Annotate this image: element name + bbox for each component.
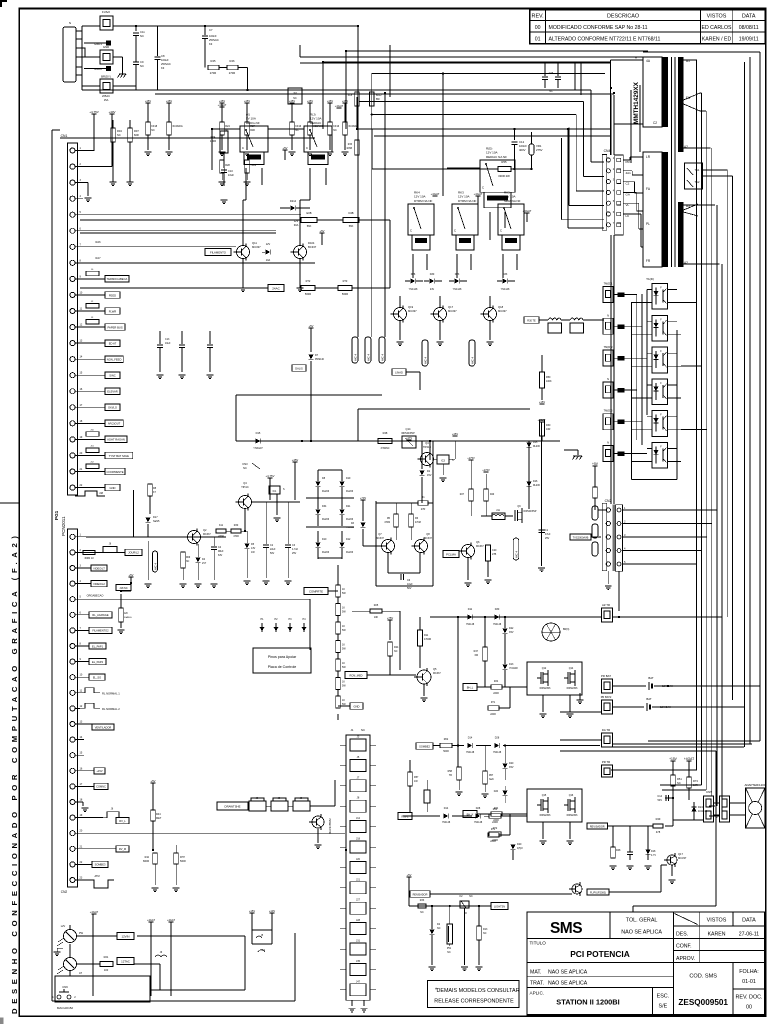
- svg-text:4700R: 4700R: [424, 638, 431, 641]
- svg-text:100uF: 100uF: [161, 58, 169, 62]
- svg-text:R49: R49: [656, 817, 661, 821]
- svg-text:+4GAT: +4GAT: [167, 918, 176, 922]
- svg-text:R73: R73: [693, 779, 698, 783]
- svg-text:400V: 400V: [519, 148, 526, 152]
- svg-text:5V 10A: 5V 10A: [246, 117, 256, 121]
- svg-text:NC: NC: [140, 34, 144, 38]
- svg-text:13V: 13V: [251, 547, 256, 550]
- svg-text:TYST BAT SAVE: TYST BAT SAVE: [109, 454, 129, 458]
- svg-text:Q7: Q7: [378, 532, 382, 536]
- svg-text:C2: C2: [626, 182, 630, 186]
- svg-text:01-01: 01-01: [742, 979, 756, 985]
- svg-text:PR BAT: PR BAT: [601, 674, 611, 678]
- svg-text:R(D): R(D): [486, 146, 492, 150]
- svg-text:REV. DOC.: REV. DOC.: [735, 995, 762, 1001]
- svg-text:C14: C14: [657, 795, 662, 798]
- svg-text:D16: D16: [533, 480, 538, 483]
- svg-text:YN4148: YN4148: [466, 752, 475, 754]
- svg-text:KF16: KF16: [333, 125, 340, 128]
- svg-text:+176V: +176V: [482, 468, 490, 472]
- svg-text:MC337: MC337: [678, 856, 687, 860]
- svg-text:1K: 1K: [342, 699, 345, 702]
- svg-text:D24: D24: [698, 805, 703, 809]
- svg-text:PNM140: PNM140: [315, 359, 325, 361]
- svg-text:22uF: 22uF: [270, 548, 276, 551]
- svg-text:APLIC.: APLIC.: [530, 991, 545, 996]
- svg-text:GND1: GND1: [94, 42, 102, 46]
- svg-text:BR(3): BR(3): [563, 628, 569, 631]
- svg-text:56K: 56K: [307, 224, 312, 228]
- svg-text:MC337: MC337: [448, 309, 457, 313]
- svg-text:12TAC: 12TAC: [121, 959, 130, 963]
- svg-text:CN1: CN1: [61, 134, 68, 138]
- svg-text:C9: C9: [140, 60, 144, 64]
- svg-text:+4GAT: +4GAT: [90, 910, 99, 914]
- svg-text:1K: 1K: [342, 625, 345, 628]
- svg-text:A/C 4: A/C 4: [367, 354, 371, 361]
- svg-text:J35: J35: [356, 960, 361, 963]
- svg-text:TA(D): TA(D): [646, 277, 654, 281]
- svg-text:VISTOS: VISTOS: [707, 918, 727, 924]
- svg-text:4.7uF: 4.7uF: [292, 548, 299, 551]
- svg-text:R46: R46: [230, 59, 235, 63]
- svg-text:R33: R33: [348, 144, 353, 146]
- svg-text:4.7V: 4.7V: [651, 854, 656, 857]
- svg-text:RV_M: RV_M: [119, 847, 126, 851]
- svg-text:+10V: +10V: [269, 909, 275, 913]
- svg-text:R07: R07: [134, 129, 139, 133]
- svg-text:ESC.: ESC.: [657, 994, 670, 1000]
- svg-text:Q18: Q18: [498, 305, 504, 309]
- svg-text:R72: R72: [493, 827, 498, 830]
- svg-text:CN6: CN6: [62, 985, 68, 989]
- svg-text:BR(DY): BR(DY): [101, 75, 111, 79]
- svg-text:+5V: +5V: [592, 462, 599, 466]
- svg-text:D4B: D4B: [348, 211, 353, 215]
- svg-text:RENISADOR: RENISADOR: [413, 893, 428, 896]
- svg-text:NON_FEED: NON_FEED: [107, 357, 122, 361]
- svg-text:16uF: 16uF: [228, 173, 234, 177]
- svg-text:IRF540/PNP: IRF540/PNP: [401, 432, 415, 435]
- svg-text:8R12: 8R12: [376, 95, 382, 97]
- svg-text:275V: 275V: [536, 148, 543, 152]
- svg-text:BH_L: BH_L: [467, 685, 474, 689]
- svg-text:J1: J1: [351, 728, 354, 732]
- svg-text:ATM: ATM: [94, 875, 99, 878]
- svg-text:15A: 15A: [104, 98, 109, 102]
- svg-text:K3: K3: [209, 42, 213, 46]
- svg-text:+45V: +45V: [166, 99, 172, 103]
- svg-text:12V 10A: 12V 10A: [504, 195, 516, 199]
- svg-text:R42: R42: [145, 856, 150, 859]
- svg-text:+45V: +45V: [452, 432, 458, 436]
- svg-text:NC: NC: [140, 64, 144, 68]
- svg-text:YHAG07: YHAG07: [253, 447, 263, 450]
- svg-text:COMPRTE: COMPRTE: [309, 589, 323, 593]
- svg-text:MC337: MC337: [424, 537, 432, 540]
- svg-text:IRFM2306: IRFM2306: [567, 815, 578, 817]
- svg-text:RK3: RK3: [458, 190, 464, 194]
- svg-text:50V: 50V: [270, 552, 275, 555]
- svg-text:PCN2011: PCN2011: [61, 516, 66, 536]
- svg-text:00: 00: [746, 1005, 752, 1011]
- svg-text:J10: J10: [293, 92, 298, 95]
- svg-text:D23: D23: [455, 273, 460, 276]
- svg-text:A/C 4: A/C 4: [515, 551, 519, 558]
- svg-text:N: N: [607, 377, 609, 381]
- svg-text:R25: R25: [374, 604, 379, 607]
- svg-text:50V: 50V: [407, 587, 412, 590]
- svg-text:KF16: KF16: [295, 125, 302, 128]
- svg-text:+4GAT: +4GAT: [335, 104, 344, 108]
- svg-text:Q15: Q15: [542, 794, 547, 797]
- svg-text:D14: D14: [468, 737, 473, 740]
- svg-text:265AC: 265AC: [102, 94, 110, 98]
- svg-text:RL NORMAL 1: RL NORMAL 1: [102, 691, 120, 695]
- svg-text:MC337: MC337: [476, 545, 484, 548]
- svg-text:FL/PU(P2000): FL/PU(P2000): [590, 891, 606, 894]
- svg-text:D20: D20: [494, 791, 499, 793]
- svg-text:GND: GND: [103, 45, 109, 49]
- svg-text:CN2: CN2: [605, 499, 612, 503]
- svg-text:FILAMENTO: FILAMENTO: [210, 250, 227, 254]
- svg-text:ZESQ009501: ZESQ009501: [678, 998, 728, 1007]
- svg-text:YN4148: YN4148: [442, 822, 451, 824]
- svg-text:16uF: 16uF: [165, 342, 171, 345]
- svg-text:S/E: S/E: [659, 1004, 668, 1010]
- svg-text:IRFM2306: IRFM2306: [540, 688, 551, 690]
- svg-text:220R: 220R: [492, 839, 498, 842]
- svg-text:R21: R21: [104, 955, 109, 959]
- svg-text:COMNC: COMNC: [96, 785, 106, 789]
- svg-text:250VAC: 250VAC: [209, 38, 219, 42]
- svg-text:REDIAC NA NF: REDIAC NA NF: [486, 155, 507, 159]
- svg-text:RK4: RK4: [414, 190, 420, 194]
- svg-text:ALTERADO CONFORME NT722/11 E N: ALTERADO CONFORME NT722/11 E NT768/11: [549, 37, 661, 43]
- svg-text:D20: D20: [517, 843, 522, 846]
- svg-text:DAL/S: DAL/S: [295, 366, 303, 370]
- svg-text:100K: 100K: [546, 380, 552, 383]
- svg-text:+47V: +47V: [406, 436, 412, 440]
- svg-text:C20: C20: [492, 549, 497, 552]
- svg-text:NC: NC: [293, 97, 297, 100]
- svg-text:+15V: +15V: [96, 769, 102, 773]
- svg-text:+45V: +45V: [219, 99, 225, 103]
- svg-text:N: N: [69, 21, 71, 25]
- svg-text:R30 TE: R30 TE: [527, 319, 536, 322]
- svg-text:GA: GA: [626, 192, 630, 196]
- svg-text:NC: NC: [447, 951, 451, 954]
- svg-text:00: 00: [535, 25, 541, 31]
- svg-text:R27: R27: [250, 125, 255, 128]
- svg-text:R51: R51: [677, 777, 682, 781]
- svg-text:FUS/2: FUS/2: [102, 10, 110, 14]
- svg-text:N: N: [607, 441, 609, 445]
- svg-text:MACHO152: MACHO152: [57, 1006, 74, 1010]
- svg-text:NaN5: NaN5: [153, 520, 160, 523]
- svg-text:K3: K3: [161, 66, 165, 70]
- svg-text:+45V: +45V: [307, 99, 313, 103]
- svg-text:AGHT RAGAN: AGHT RAGAN: [107, 438, 125, 442]
- svg-text:BAT: BAT: [646, 697, 652, 701]
- svg-text:NAO SE APLICA: NAO SE APLICA: [621, 930, 662, 936]
- svg-text:+15V: +15V: [249, 909, 255, 913]
- svg-text:R58: R58: [448, 770, 453, 773]
- svg-text:DTRM NA NF: DTRM NA NF: [458, 199, 477, 203]
- svg-text:APROV.: APROV.: [676, 956, 695, 962]
- svg-text:4A1: 4A1: [626, 171, 632, 175]
- svg-text:PCI POTENCIA: PCI POTENCIA: [570, 949, 630, 959]
- svg-text:MC337: MC337: [408, 309, 417, 313]
- svg-text:82R: 82R: [134, 133, 139, 137]
- svg-text:RELEASE CORRESPONDENTE: RELEASE CORRESPONDENTE: [434, 999, 514, 1005]
- svg-text:A/C 4: A/C 4: [471, 357, 475, 364]
- svg-text:R71: R71: [491, 702, 496, 704]
- svg-text:27B: 27B: [492, 553, 497, 556]
- svg-text:R11: R11: [424, 634, 429, 637]
- svg-text:BAT: BAT: [648, 676, 654, 680]
- svg-text:Placa de Controle: Placa de Controle: [268, 665, 297, 669]
- svg-text:470M: 470M: [384, 522, 390, 524]
- svg-text:+5V: +5V: [150, 779, 155, 783]
- svg-text:R47: R47: [474, 650, 479, 653]
- svg-text:Q19: Q19: [408, 305, 414, 309]
- svg-text:A/C 4: A/C 4: [381, 354, 385, 361]
- svg-text:TVS2000AVB: TVS2000AVB: [573, 535, 589, 539]
- svg-text:R30: R30: [234, 524, 239, 527]
- svg-text:+5V: +5V: [309, 324, 314, 328]
- svg-text:Q17: Q17: [678, 852, 683, 856]
- svg-text:AF(2)OUT: AF(2)OUT: [108, 422, 121, 426]
- svg-text:RL206: RL206: [322, 551, 330, 554]
- svg-text:MC337: MC337: [203, 533, 211, 536]
- svg-text:540A NA NF: 540A NA NF: [504, 199, 521, 203]
- svg-text:ED CARLOS: ED CARLOS: [702, 25, 733, 31]
- svg-text:D34: D34: [322, 505, 327, 508]
- svg-text:J48: J48: [99, 492, 104, 495]
- svg-text:RL206: RL206: [533, 446, 540, 448]
- svg-text:3C3AWG: 3C3AWG: [172, 125, 183, 128]
- svg-text:REDIAC: REDIAC: [310, 121, 322, 125]
- svg-text:10R: 10R: [546, 428, 551, 431]
- svg-text:R34: R34: [494, 681, 499, 683]
- svg-text:+175V: +175V: [467, 456, 475, 460]
- svg-text:RL206: RL206: [322, 490, 330, 493]
- svg-text:NC: NC: [333, 129, 337, 132]
- svg-text:C13: C13: [165, 338, 170, 341]
- svg-text:IRF540/PNP: IRF540/PNP: [524, 511, 537, 513]
- svg-text:TRAT.: TRAT.: [530, 981, 544, 987]
- svg-text:MAT.: MAT.: [530, 970, 541, 976]
- svg-text:270R: 270R: [210, 71, 216, 75]
- svg-text:NC: NC: [243, 466, 247, 470]
- svg-text:4(5)V: 4(5)V: [517, 847, 523, 850]
- svg-text:R04: R04: [117, 129, 122, 133]
- svg-text:J21: J21: [356, 878, 361, 881]
- svg-text:Q4: Q4: [243, 481, 247, 485]
- svg-text:RL206: RL206: [346, 551, 354, 554]
- svg-text:D17: D17: [153, 516, 158, 519]
- svg-text:J20: J20: [356, 858, 361, 861]
- svg-text:98uF: 98uF: [218, 550, 224, 553]
- svg-text:12V 10A: 12V 10A: [414, 195, 426, 199]
- svg-text:30AWG: 30AWG: [124, 616, 132, 619]
- svg-text:Q11: Q11: [252, 241, 257, 245]
- svg-text:+5V: +5V: [407, 873, 412, 877]
- svg-text:RA6: RA6: [95, 240, 101, 244]
- svg-text:270R: 270R: [229, 71, 235, 75]
- svg-text:63V: 63V: [218, 554, 223, 557]
- svg-text:TITULO: TITULO: [530, 941, 547, 946]
- svg-text:Q8: Q8: [426, 532, 430, 536]
- svg-text:18R: 18R: [693, 783, 698, 787]
- svg-text:FILAMENTO2: FILAMENTO2: [92, 629, 109, 633]
- svg-text:+15V: +15V: [669, 757, 678, 761]
- svg-text:R48: R48: [383, 431, 388, 435]
- svg-text:R45: R45: [211, 59, 216, 63]
- svg-text:TM(D)1: TM(D)1: [604, 282, 613, 286]
- svg-text:NC: NC: [186, 561, 190, 563]
- svg-text:+5V: +5V: [129, 573, 134, 577]
- svg-text:800M: 800M: [143, 860, 149, 863]
- svg-text:GND: GND: [110, 486, 116, 490]
- svg-text:DEMAIS MODELOS CONSULTAR: DEMAIS MODELOS CONSULTAR: [436, 988, 519, 994]
- svg-text:R73: R73: [343, 279, 348, 283]
- svg-text:L2V: L2V: [61, 925, 66, 928]
- svg-text:RL_AG/PAGE: RL_AG/PAGE: [92, 613, 109, 617]
- svg-text:OKI/LO: OKI/LO: [108, 406, 117, 410]
- svg-text:+45V: +45V: [145, 99, 151, 103]
- svg-text:10K: 10K: [374, 616, 379, 619]
- svg-text:D28: D28: [495, 737, 500, 740]
- svg-text:NC: NC: [117, 133, 121, 137]
- svg-text:YN4148: YN4148: [453, 288, 462, 291]
- svg-text:+4GAT: +4GAT: [523, 209, 532, 213]
- svg-text:RL206: RL206: [533, 485, 540, 487]
- svg-text:+45V: +45V: [292, 458, 299, 462]
- svg-text:Q4: Q4: [425, 441, 429, 445]
- svg-text:NC: NC: [677, 781, 681, 785]
- svg-text:EL_SO: EL_SO: [93, 676, 101, 680]
- svg-text:TM(D)5: TM(D)5: [604, 409, 613, 413]
- svg-text:1K: 1K: [342, 588, 345, 591]
- svg-text:1N4148: 1N4148: [698, 809, 708, 813]
- svg-text:D15: D15: [256, 431, 261, 435]
- svg-text:PCLMA: PCLMA: [446, 552, 456, 556]
- svg-text:RL206: RL206: [346, 518, 354, 521]
- svg-text:COOPRENTE: COOPRENTE: [107, 470, 124, 474]
- svg-text:J31: J31: [356, 940, 361, 943]
- svg-text:RL206: RL206: [346, 490, 354, 493]
- svg-text:25V: 25V: [292, 552, 297, 555]
- svg-text:12V 10A: 12V 10A: [486, 151, 498, 155]
- svg-text:GND2: GND2: [94, 67, 102, 71]
- svg-text:+4GAT: +4GAT: [147, 918, 156, 922]
- svg-text:12V: 12V: [266, 243, 271, 246]
- svg-text:SOMBE2: SOMBE2: [419, 744, 430, 748]
- svg-text:3C3AWG: 3C3AWG: [313, 125, 324, 128]
- svg-text:220R: 220R: [490, 714, 496, 716]
- svg-text:+45V: +45V: [327, 99, 333, 103]
- svg-text:Q5: Q5: [433, 667, 437, 671]
- svg-text:R(J): R(J): [310, 112, 316, 116]
- svg-text:470M: 470M: [415, 522, 421, 524]
- svg-text:R72: R72: [306, 279, 311, 283]
- svg-text:ELEVAR: ELEVAR: [107, 390, 117, 394]
- svg-text:D30: D30: [495, 608, 500, 611]
- svg-text:DRAWTSHE: DRAWTSHE: [225, 804, 241, 808]
- svg-text:1K6B: 1K6B: [346, 148, 352, 150]
- svg-text:D12: D12: [346, 538, 351, 541]
- svg-text:MMTH1429XX: MMTH1429XX: [633, 81, 640, 124]
- svg-text:K5V: K5V: [509, 631, 514, 634]
- svg-text:VIDEO/L2: VIDEO/L2: [93, 582, 105, 586]
- svg-text:12VIN: 12VIN: [121, 934, 129, 938]
- svg-text:J28: J28: [356, 919, 361, 922]
- svg-text:2V7: 2V7: [202, 562, 207, 565]
- svg-text:300M 1U: 300M 1U: [84, 558, 94, 560]
- svg-text:FOLHA:: FOLHA:: [739, 969, 758, 975]
- svg-text:12V: 12V: [294, 219, 299, 223]
- svg-text:DES.: DES.: [676, 932, 688, 938]
- svg-text:IRFM2306: IRFM2306: [567, 688, 578, 690]
- svg-text:R30: R30: [546, 424, 551, 427]
- svg-text:IC3: IC3: [441, 460, 446, 463]
- svg-text:C7: C7: [209, 28, 213, 32]
- svg-text:R57: R57: [414, 776, 419, 779]
- svg-text:D214: D214: [290, 199, 297, 203]
- svg-text:470R: 470R: [218, 536, 224, 538]
- svg-text:27R: 27R: [421, 508, 426, 511]
- svg-text:DATA: DATA: [742, 918, 756, 924]
- svg-text:+40V: +40V: [108, 110, 115, 114]
- svg-text:RV_L: RV_L: [119, 819, 126, 823]
- svg-text:Q14: Q14: [569, 667, 574, 670]
- svg-text:3.5WNC: 3.5WNC: [380, 447, 389, 450]
- svg-text:JOUR/L2: JOUR/L2: [128, 551, 139, 555]
- svg-text:27-06-11: 27-06-11: [739, 932, 759, 938]
- svg-text:YN4148: YN4148: [474, 822, 483, 824]
- svg-text:+70V: +70V: [360, 496, 366, 500]
- svg-text:PR TR: PR TR: [602, 760, 610, 764]
- svg-text:J18: J18: [356, 838, 361, 841]
- svg-text:+4GAT: +4GAT: [431, 192, 440, 196]
- svg-text:R33: R33: [420, 899, 425, 902]
- svg-text:C8: C8: [161, 54, 165, 58]
- svg-text:GND: GND: [354, 704, 360, 708]
- svg-text:NC: NC: [469, 895, 473, 898]
- svg-text:6M: 6M: [475, 654, 478, 657]
- svg-text:SMS: SMS: [550, 920, 582, 937]
- svg-text:CN2: CN2: [61, 890, 68, 894]
- svg-text:01: 01: [535, 37, 541, 43]
- svg-text:LINAD: LINAD: [395, 370, 403, 374]
- svg-text:500R: 500R: [180, 860, 186, 863]
- svg-text:EL_PAP1: EL_PAP1: [92, 644, 104, 648]
- svg-text:R62: R62: [444, 738, 449, 741]
- svg-text:A/C 4: A/C 4: [354, 354, 358, 361]
- svg-text:30A: 30A: [294, 223, 299, 227]
- svg-text:LIGHT3N: LIGHT3N: [494, 904, 505, 908]
- svg-text:VL: VL: [626, 203, 630, 207]
- svg-text:PR BAT2: PR BAT2: [601, 695, 612, 699]
- svg-text:100R: 100R: [210, 139, 216, 143]
- svg-text:REV.: REV.: [532, 14, 544, 20]
- svg-text:D30: D30: [430, 273, 435, 276]
- svg-text:YN4148: YN4148: [409, 288, 418, 291]
- svg-text:DESCRICAO: DESCRICAO: [607, 14, 639, 20]
- svg-text:D26: D26: [411, 273, 416, 276]
